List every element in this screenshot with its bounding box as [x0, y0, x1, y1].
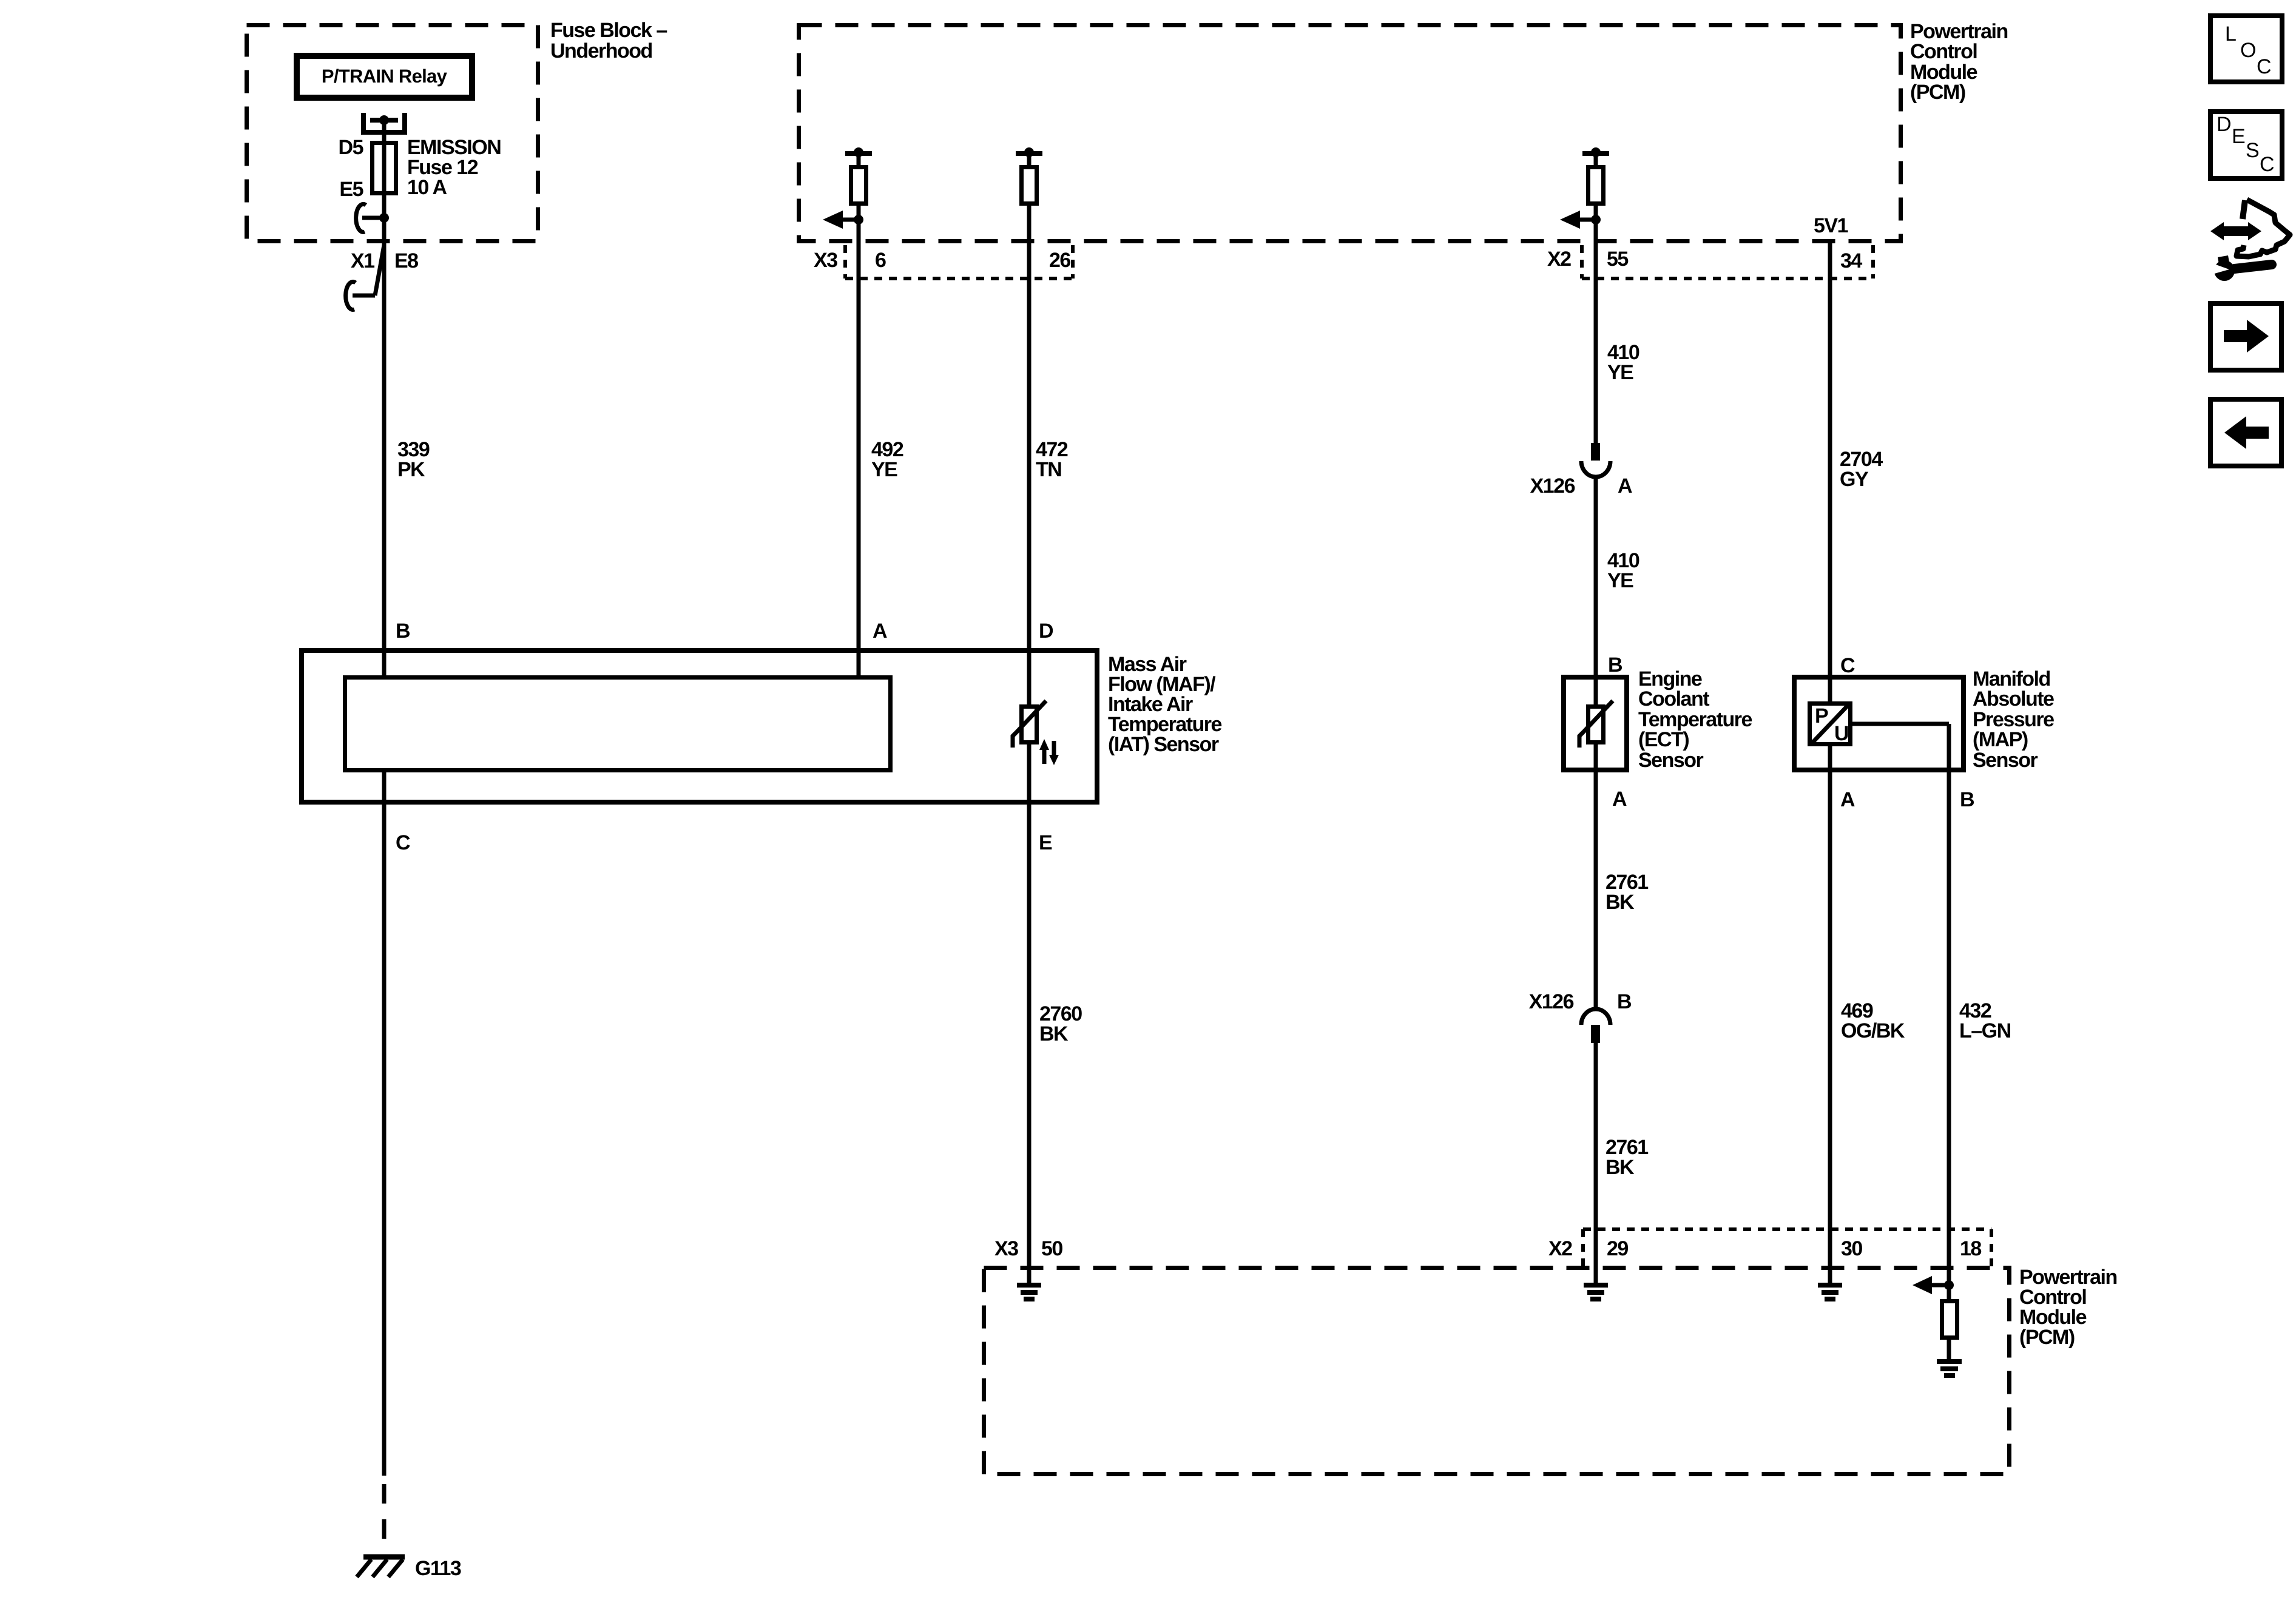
- svg-text:YE: YE: [1607, 569, 1633, 592]
- svg-text:30: 30: [1841, 1237, 1862, 1260]
- svg-text:B: B: [1960, 788, 1974, 811]
- svg-text:X3: X3: [994, 1237, 1018, 1260]
- svg-text:A: A: [1618, 474, 1632, 498]
- svg-text:E: E: [2232, 125, 2246, 148]
- svg-text:(PCM): (PCM): [2019, 1326, 2075, 1349]
- svg-text:X2: X2: [1547, 248, 1571, 271]
- svg-text:X126: X126: [1529, 990, 1574, 1013]
- svg-text:BK: BK: [1039, 1022, 1069, 1045]
- svg-text:GY: GY: [1840, 468, 1869, 491]
- svg-text:P: P: [1815, 704, 1828, 727]
- svg-text:TN: TN: [1036, 458, 1061, 481]
- svg-text:C: C: [396, 831, 410, 854]
- svg-text:A: A: [1840, 788, 1855, 811]
- svg-text:C: C: [2260, 153, 2275, 176]
- svg-text:D: D: [2217, 113, 2232, 136]
- svg-text:L–GN: L–GN: [1959, 1019, 2011, 1042]
- svg-text:10 A: 10 A: [407, 176, 447, 199]
- svg-text:O: O: [2240, 39, 2256, 62]
- svg-text:Control: Control: [1910, 40, 1977, 63]
- svg-text:26: 26: [1049, 249, 1070, 272]
- svg-text:BK: BK: [1606, 1156, 1635, 1179]
- svg-text:G113: G113: [415, 1557, 461, 1580]
- svg-text:5V1: 5V1: [1814, 214, 1848, 237]
- svg-text:C: C: [1840, 654, 1855, 677]
- svg-text:X2: X2: [1548, 1237, 1572, 1260]
- svg-text:(ECT): (ECT): [1638, 728, 1689, 751]
- svg-text:B: B: [1617, 990, 1632, 1013]
- svg-text:29: 29: [1607, 1237, 1628, 1260]
- svg-text:D: D: [1039, 619, 1053, 643]
- svg-text:A: A: [1612, 788, 1627, 811]
- svg-text:S: S: [2246, 139, 2260, 162]
- svg-text:E: E: [1039, 831, 1052, 854]
- svg-text:Absolute: Absolute: [1973, 687, 2054, 711]
- svg-text:U: U: [1834, 722, 1848, 745]
- svg-text:18: 18: [1960, 1237, 1981, 1260]
- svg-text:B: B: [396, 619, 410, 643]
- svg-text:OG/BK: OG/BK: [1841, 1019, 1905, 1042]
- svg-text:A: A: [873, 619, 887, 643]
- svg-text:Coolant: Coolant: [1638, 687, 1709, 711]
- svg-text:(MAP): (MAP): [1973, 728, 2028, 751]
- svg-text:6: 6: [875, 249, 886, 272]
- svg-text:D5: D5: [339, 136, 363, 159]
- svg-text:Sensor: Sensor: [1973, 749, 2038, 772]
- svg-text:(IAT) Sensor: (IAT) Sensor: [1108, 733, 1219, 756]
- svg-text:BK: BK: [1606, 891, 1635, 914]
- svg-text:Fuse Block –: Fuse Block –: [550, 19, 667, 42]
- svg-text:Underhood: Underhood: [550, 39, 652, 62]
- svg-text:C: C: [2257, 55, 2272, 78]
- svg-text:E8: E8: [394, 249, 418, 272]
- svg-text:P/TRAIN Relay: P/TRAIN Relay: [322, 66, 448, 87]
- svg-text:55: 55: [1607, 248, 1628, 271]
- svg-text:E5: E5: [339, 178, 363, 201]
- svg-text:YE: YE: [1607, 361, 1633, 384]
- svg-text:B: B: [1608, 653, 1622, 677]
- svg-text:PK: PK: [397, 458, 425, 481]
- svg-text:50: 50: [1041, 1237, 1062, 1260]
- svg-text:Sensor: Sensor: [1638, 749, 1704, 772]
- svg-text:X126: X126: [1530, 474, 1575, 498]
- svg-text:(PCM): (PCM): [1910, 81, 1965, 104]
- svg-text:X1: X1: [351, 249, 374, 272]
- svg-text:YE: YE: [871, 458, 897, 481]
- svg-text:X3: X3: [814, 249, 837, 272]
- svg-text:L: L: [2225, 22, 2237, 46]
- svg-text:34: 34: [1840, 249, 1862, 272]
